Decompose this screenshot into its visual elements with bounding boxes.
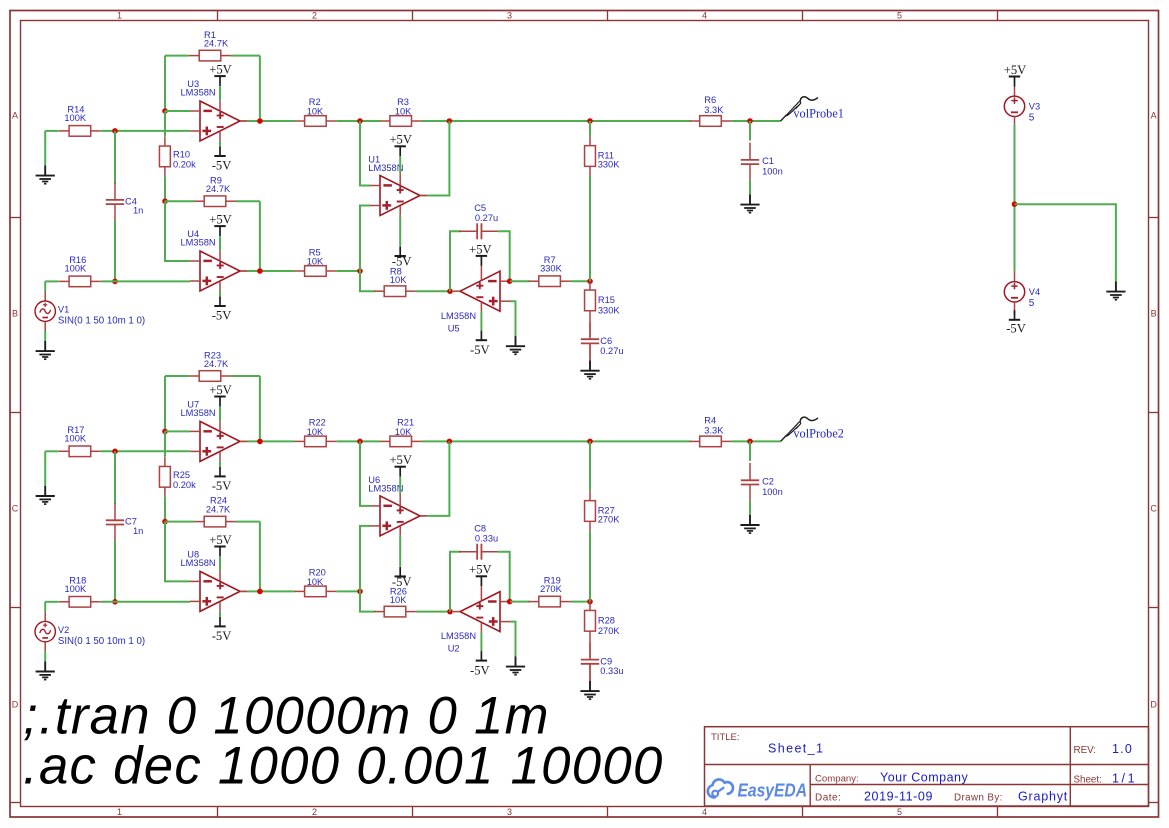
svg-text:1/1: 1/1 [1112,772,1137,786]
wire [399,536,401,567]
junction [587,278,593,284]
svg-text:-5V: -5V [1006,322,1026,336]
junction [447,439,453,445]
resistor R9 [194,175,236,206]
svg-text:A: A [1151,111,1157,121]
capacitor C6 [581,322,624,361]
wire [510,301,516,336]
wire [336,270,360,272]
op-amp U2 [453,592,510,632]
svg-text:0.27u: 0.27u [600,346,623,356]
svg-text:5: 5 [1029,298,1035,309]
wire [247,440,295,442]
svg-text:A: A [12,111,18,121]
junction [257,268,263,274]
junction [747,118,753,124]
svg-text:V4: V4 [1029,287,1040,297]
wire [360,441,370,506]
resistor R17 [59,425,101,457]
label U1 [368,155,403,174]
wire [399,477,401,494]
wire [114,131,116,184]
ground [580,361,599,379]
svg-text:C9: C9 [600,656,612,666]
resistor R2 [295,97,337,126]
wire [480,622,482,632]
power flag +5V [389,133,412,157]
junction [447,288,453,294]
svg-text:4: 4 [702,11,707,21]
wire [427,121,449,196]
wire [480,632,482,651]
power flag +5V [209,213,232,237]
svg-text:LM358N: LM358N [368,483,403,493]
svg-text:-5V: -5V [212,309,232,323]
wire [219,451,221,461]
svg-text:REV:: REV: [1074,745,1097,756]
svg-text:LM358N: LM358N [181,237,216,247]
resistor R16 [59,255,101,287]
wire [165,375,189,377]
wire [165,521,194,523]
svg-text:Your Company: Your Company [880,771,968,785]
wire [1014,271,1016,282]
svg-text:volProbe2: volProbe2 [793,427,844,441]
wire [101,601,190,603]
wire [399,526,401,536]
junction [357,118,363,124]
wire [114,541,116,602]
junction [587,599,593,605]
svg-text:.ac dec 1000 0.001 10000: .ac dec 1000 0.001 10000 [23,737,664,796]
svg-text:330K: 330K [598,305,621,315]
resistor R14 [59,105,101,137]
wire [480,266,482,281]
wire [749,180,751,194]
wire [165,110,190,112]
svg-text:1n: 1n [133,526,143,536]
wire [420,515,427,517]
junction [162,429,168,435]
wire [219,601,221,611]
svg-text:+5V: +5V [1004,63,1027,77]
svg-text:0.33u: 0.33u [475,534,498,544]
junction [357,589,363,595]
resistor R5 [295,247,337,276]
wire [1015,204,1116,281]
wire [247,120,295,122]
svg-text:LM358N: LM358N [368,163,403,173]
svg-text:C5: C5 [474,203,486,213]
label U6 [368,475,403,494]
wire [1014,302,1016,315]
svg-text:R6: R6 [704,95,716,105]
wire [571,601,591,603]
wire [399,215,401,246]
svg-text:SIN(0 1 50 10m 1 0): SIN(0 1 50 10m 1 0) [58,316,145,327]
label U2 [441,631,476,654]
op-amp U7 [190,421,247,461]
junction [587,118,593,124]
wire [219,571,221,581]
wire [219,141,221,146]
op-amp U8 [190,571,247,611]
power flag -5V [212,297,232,323]
power flag -5V [470,651,490,677]
wire [360,121,370,186]
wire [1014,87,1016,97]
wire [749,441,751,461]
op-amp U6 [370,496,427,536]
wire [498,552,510,602]
svg-text:270K: 270K [540,584,563,594]
wire [589,441,591,491]
capacitor C1 [741,143,783,182]
wire [1014,117,1016,125]
wire [44,611,46,621]
svg-text:C: C [12,504,19,514]
svg-text:24.7K: 24.7K [206,505,231,515]
wire [231,55,260,57]
svg-text:-5V: -5V [212,479,232,493]
title block [705,727,1149,806]
power flag -5V [392,247,412,269]
junction [257,439,263,445]
wire [219,236,221,250]
wire [44,131,46,166]
wire [399,173,401,186]
junction [447,609,453,615]
junction [112,128,118,134]
wire [114,451,116,504]
wire [336,590,360,592]
resistor R1 [189,30,231,61]
junction [257,118,263,124]
net probe volProbe1 [781,97,844,121]
resistor R11 [585,136,621,176]
svg-text:3.3K: 3.3K [704,105,724,115]
junction [507,278,513,284]
svg-text:330K: 330K [540,263,563,273]
svg-text:volProbe1: volProbe1 [793,106,844,120]
junction [112,279,118,285]
wire [219,611,221,616]
resistor R24 [194,496,236,527]
resistor R23 [189,350,231,381]
svg-text:D: D [1150,700,1157,710]
resistor R21 [380,418,422,447]
wire [399,156,401,173]
wire [219,131,221,141]
wire [589,602,591,611]
voltage source V3 [1004,96,1040,123]
ground [506,336,525,354]
wire [498,231,510,281]
wire [480,302,482,312]
wire [44,321,46,331]
svg-text:270K: 270K [598,515,621,525]
wire [422,120,691,122]
wire [164,431,166,456]
wire [589,281,591,290]
power flag +5V [209,533,232,557]
wire [731,440,780,442]
wire [164,376,166,431]
svg-text:24.7K: 24.7K [204,38,229,48]
junction [1012,201,1018,207]
resistor R19 [529,576,571,607]
svg-text:+5V: +5V [209,213,232,227]
wire [589,176,591,281]
wire [336,120,380,122]
power flag +5V [1004,63,1027,87]
wire [44,451,46,486]
power flag +5V [469,242,492,266]
svg-text:270K: 270K [598,626,621,636]
label U4 [181,229,216,247]
svg-text:LM358N: LM358N [441,631,476,641]
wire [164,56,166,111]
wire [219,407,221,421]
svg-text:U5: U5 [448,323,460,333]
ground [36,486,55,504]
svg-text:3: 3 [507,11,512,21]
wire [360,591,375,611]
svg-text:V1: V1 [58,305,69,315]
resistor R15 [585,290,621,315]
svg-text:+5V: +5V [209,533,232,547]
ground [36,341,55,359]
svg-text:1: 1 [117,11,122,21]
ground [580,681,599,699]
ground [36,661,55,679]
wire [360,206,370,272]
svg-text:3.3K: 3.3K [704,425,724,435]
ground [36,166,55,184]
wire [45,601,59,603]
svg-text:R4: R4 [704,415,716,425]
svg-text:100K: 100K [64,113,87,123]
wire [450,552,461,612]
capacitor C8 [459,523,500,559]
wire [219,461,221,466]
svg-text:5: 5 [897,11,902,21]
wire [247,270,295,272]
wire [165,55,189,57]
op-amp U5 [453,271,510,311]
label U5 [441,311,476,334]
wire [219,421,221,431]
wire [231,375,260,377]
wire [240,590,247,592]
power flag -5V [1006,310,1026,335]
power flag -5V [392,567,412,589]
ground [506,657,525,675]
junction [357,439,363,445]
svg-text:C: C [1150,504,1157,514]
wire [44,331,46,341]
svg-text:Drawn By:: Drawn By: [954,793,1003,804]
ground [1106,282,1125,300]
svg-text:C6: C6 [600,336,612,346]
wire [480,586,482,601]
svg-text:+5V: +5V [209,63,232,77]
wire [164,176,166,201]
wire [259,522,261,592]
wire [731,120,780,122]
svg-text:+5V: +5V [469,242,492,256]
wire [360,271,375,291]
svg-text:B: B [12,309,18,319]
svg-text:-5V: -5V [470,663,490,677]
svg-text:B: B [1151,309,1157,319]
capacitor C9 [581,642,624,681]
wire [219,281,221,291]
op-amp U4 [190,251,247,291]
svg-text:EasyEDA: EasyEDA [738,781,808,801]
junction [257,589,263,595]
wire [360,526,370,592]
resistor R26 [374,587,416,617]
wire [589,311,591,337]
label U7 [181,399,216,417]
capacitor C4 [106,183,144,222]
svg-text:3: 3 [507,807,512,817]
svg-text:330K: 330K [598,160,621,170]
svg-text:10K: 10K [307,427,324,437]
svg-text:TITLE:: TITLE: [711,732,740,743]
wire [44,281,46,291]
wire [399,493,401,506]
junction [162,198,168,204]
svg-text:100K: 100K [65,264,88,274]
wire [45,130,59,132]
wire [240,120,247,122]
svg-text:100n: 100n [762,166,783,176]
voltage source V1 [35,301,145,327]
power flag -5V [212,147,232,173]
svg-text:C8: C8 [474,523,486,533]
wire [101,280,190,282]
wire [480,311,482,330]
resistor R7 [529,255,571,286]
wire [422,440,691,442]
wire [1014,124,1016,270]
wire [44,602,46,612]
power flag +5V [469,563,492,587]
svg-text:+5V: +5V [389,453,412,467]
resistor R10 [159,136,196,176]
svg-text:1: 1 [117,807,122,817]
wire [247,590,295,592]
wire [164,497,166,522]
power flag -5V [212,467,232,493]
op-amp U1 [370,176,427,216]
junction [112,599,118,605]
svg-text:5: 5 [1029,112,1035,123]
wire [240,270,247,272]
svg-text:C1: C1 [762,156,774,166]
svg-text:LM358N: LM358N [181,558,216,568]
svg-text:LM358N: LM358N [181,408,216,418]
junction [357,268,363,274]
wire [336,440,380,442]
ground [740,515,759,533]
wire [589,121,591,136]
wire [589,631,591,657]
resistor R18 [59,575,101,607]
wire [427,441,449,516]
svg-text:10K: 10K [307,257,324,267]
wire [589,343,591,360]
wire [219,291,221,296]
wire [165,522,190,582]
svg-text:U2: U2 [448,644,460,654]
resistor R27 [585,491,621,531]
svg-text:24.7K: 24.7K [206,184,231,194]
wire [259,56,261,121]
junction [162,108,168,114]
svg-text:Company:: Company: [815,774,859,785]
svg-text:0.27u: 0.27u [475,213,498,223]
wire [240,440,247,442]
svg-text:-5V: -5V [212,629,232,643]
resistor R20 [295,568,337,597]
resistor R6 [690,95,732,126]
svg-text:10K: 10K [307,577,324,587]
wire [44,642,46,652]
wire [510,601,530,603]
svg-text:100n: 100n [762,487,783,497]
wire [259,376,261,441]
svg-text:4: 4 [702,807,707,817]
power flag +5V [389,453,412,477]
svg-text:2: 2 [312,11,317,21]
power flag -5V [212,617,232,643]
svg-text:D: D [12,700,19,710]
svg-text:R28: R28 [598,616,615,626]
wire [165,430,190,432]
resistor R28 [585,610,621,635]
junction [587,439,593,445]
svg-text:LM358N: LM358N [441,311,476,321]
svg-text:Sheet_1: Sheet_1 [768,742,824,756]
resistor R4 [690,415,732,446]
power flag +5V [209,63,232,87]
wire [45,280,59,282]
svg-text:Sheet:: Sheet: [1074,775,1102,786]
EasyEDA logo [708,779,807,800]
wire [219,101,221,111]
wire [165,200,194,202]
wire [416,290,450,292]
svg-text:5: 5 [897,807,902,817]
wire [44,651,46,661]
wire [571,280,591,282]
wire [165,201,190,261]
power flag -5V [470,331,490,357]
capacitor C2 [741,463,783,502]
svg-text:V3: V3 [1029,101,1040,111]
svg-text:24.7K: 24.7K [204,359,229,369]
power flag +5V [209,383,232,407]
op-amp U3 [190,101,247,141]
wire [589,531,591,602]
wire [450,231,461,291]
svg-text:1.0: 1.0 [1112,742,1133,756]
svg-text:10K: 10K [390,595,407,605]
svg-text:+5V: +5V [469,563,492,577]
